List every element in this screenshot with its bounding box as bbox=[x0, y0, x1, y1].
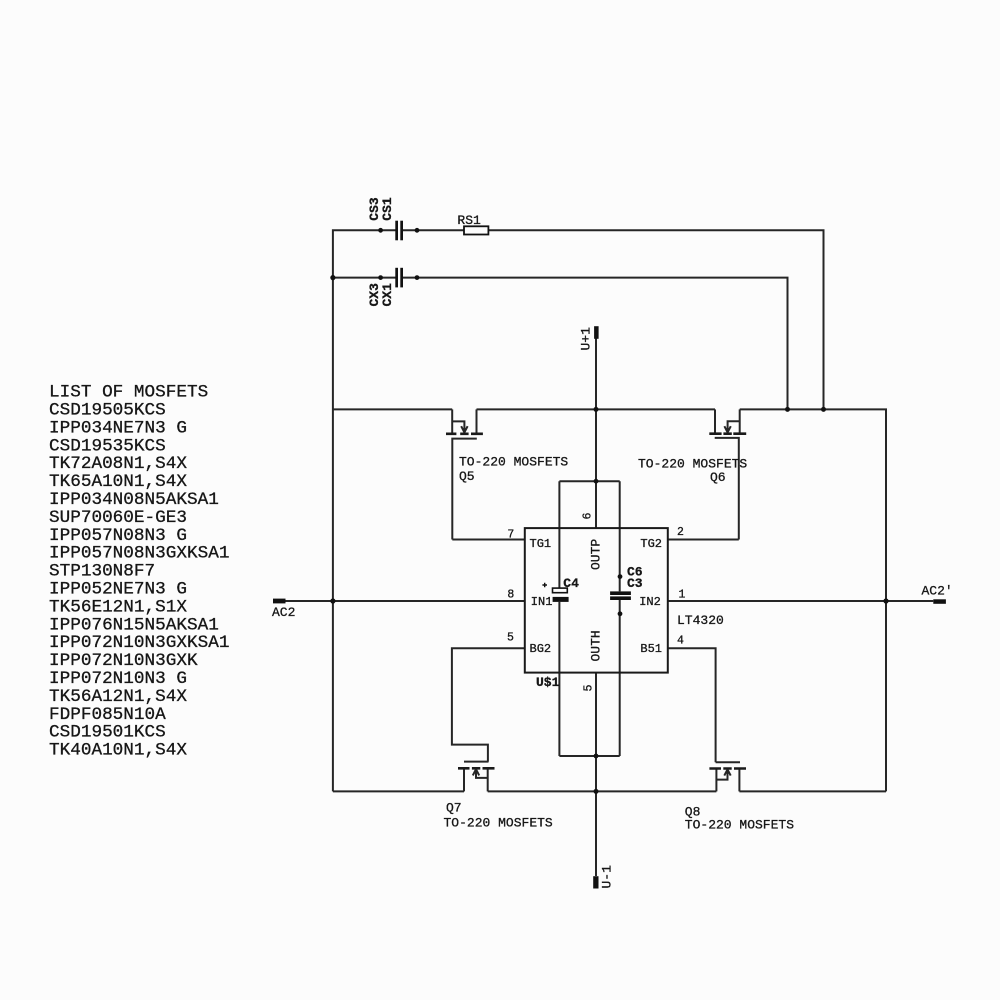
svg-text:7: 7 bbox=[507, 529, 514, 542]
svg-text:C3: C3 bbox=[627, 576, 643, 591]
svg-text:OUTH: OUTH bbox=[589, 630, 604, 661]
svg-text:TK40A10N1,S4X: TK40A10N1,S4X bbox=[49, 741, 187, 761]
svg-text:RS1: RS1 bbox=[457, 213, 481, 228]
svg-text:CS1: CS1 bbox=[380, 197, 395, 221]
svg-text:Q6: Q6 bbox=[710, 470, 726, 485]
svg-text:AC2': AC2' bbox=[922, 584, 953, 599]
svg-text:CX1: CX1 bbox=[380, 283, 395, 307]
svg-text:TO-220 MOSFETS: TO-220 MOSFETS bbox=[459, 455, 568, 470]
svg-text:TO-220 MOSFETS: TO-220 MOSFETS bbox=[685, 818, 794, 833]
svg-text:Q7: Q7 bbox=[446, 801, 462, 816]
svg-text:TG2: TG2 bbox=[640, 537, 662, 551]
svg-text:IN1: IN1 bbox=[531, 595, 553, 609]
svg-text:C4: C4 bbox=[563, 576, 579, 591]
svg-text:AC2: AC2 bbox=[272, 605, 295, 620]
svg-text:5: 5 bbox=[583, 685, 596, 692]
svg-text:8: 8 bbox=[507, 589, 514, 602]
svg-text:U+1: U+1 bbox=[579, 327, 594, 351]
svg-text:2: 2 bbox=[677, 526, 684, 539]
svg-text:U-1: U-1 bbox=[600, 865, 615, 889]
svg-text:4: 4 bbox=[677, 635, 684, 648]
svg-text:IN2: IN2 bbox=[639, 595, 661, 609]
svg-text:TO-220 MOSFETS: TO-220 MOSFETS bbox=[638, 457, 747, 472]
svg-text:B51: B51 bbox=[640, 642, 662, 656]
svg-text:1: 1 bbox=[679, 589, 686, 602]
svg-text:OUTP: OUTP bbox=[589, 539, 604, 570]
svg-text:BG2: BG2 bbox=[530, 642, 552, 656]
svg-text:LT4320: LT4320 bbox=[677, 613, 724, 628]
svg-text:Q5: Q5 bbox=[459, 469, 475, 484]
svg-text:U$1: U$1 bbox=[536, 675, 560, 690]
svg-text:TG1: TG1 bbox=[530, 537, 552, 551]
svg-text:5: 5 bbox=[507, 632, 514, 645]
svg-text:6: 6 bbox=[582, 513, 595, 520]
svg-text:TO-220 MOSFETS: TO-220 MOSFETS bbox=[444, 816, 553, 831]
